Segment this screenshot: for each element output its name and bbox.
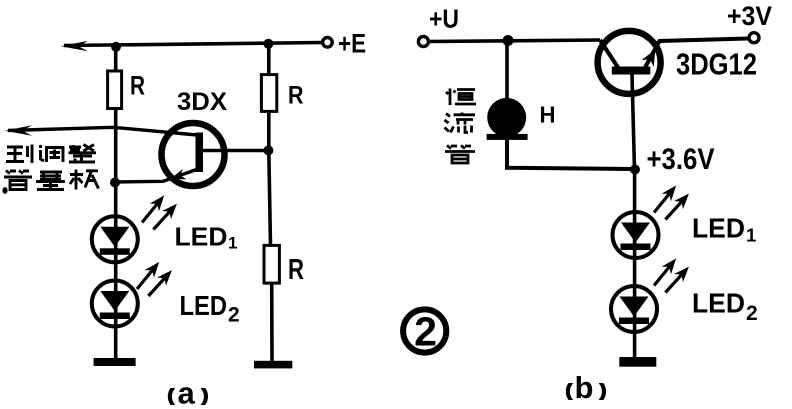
svg-text:1: 1 (228, 234, 237, 253)
svg-text:+3.6V: +3.6V (647, 143, 715, 176)
emitter arrowhead Q1 (169, 169, 187, 184)
svg-text:R: R (288, 254, 304, 286)
ground (divider a) (254, 361, 292, 369)
arrowhead left (rail to external) (61, 41, 88, 51)
wire +E rail (64, 43, 322, 46)
Q1 base bar (196, 133, 204, 173)
svg-text:LED: LED (175, 221, 228, 251)
light arrows D4 (649, 255, 680, 290)
D2 cathode bar (100, 313, 130, 320)
label 管基极 line 2 (4, 170, 99, 190)
wire collector to regulator base (goes left) (8, 127, 197, 135)
D3 triangle (621, 223, 650, 243)
svg-text:LED: LED (692, 287, 745, 318)
D4 triangle (620, 297, 649, 317)
LED D3 circle (613, 212, 659, 258)
wire +U rail (429, 40, 600, 42)
svg-text:(: ( (566, 383, 572, 400)
wire Q1 base to divider node (203, 149, 269, 152)
label 恒流管 (vertical) (445, 89, 477, 164)
svg-text:(: ( (168, 388, 174, 405)
svg-text:LED: LED (180, 290, 228, 321)
LED D2 circle (92, 281, 138, 327)
svg-text:R: R (130, 71, 145, 101)
D3 cathode bar (621, 244, 651, 251)
svg-text:R: R (288, 82, 304, 110)
node A2 (rail / R divider a-right) (263, 39, 273, 49)
wire emitter (115, 169, 198, 182)
resistor R3 (264, 245, 279, 283)
ground (LED chain a) (94, 358, 136, 366)
wire left branch vertical (114, 47, 118, 359)
svg-text:2: 2 (746, 302, 758, 325)
resistor R1 (108, 71, 122, 109)
label 到调整 (to regulator) line 1 (6, 145, 96, 164)
terminal +E (open circle) (323, 38, 333, 48)
node E (+3.6V junction) (630, 165, 640, 175)
svg-text:+U: +U (429, 4, 459, 34)
light arrows D1 (137, 192, 168, 227)
svg-text:1: 1 (746, 224, 756, 245)
svg-text:2: 2 (414, 309, 437, 355)
node A1 (rail / R divider a-left) (111, 42, 121, 52)
svg-text:+3V: +3V (727, 1, 772, 31)
svg-text:+E: +E (338, 29, 366, 59)
svg-text:a: a (178, 376, 196, 409)
svg-text:LED: LED (692, 213, 745, 244)
D1 triangle (100, 227, 129, 247)
wire collector Q2 (600, 40, 618, 68)
current regulator H (filled circle) (487, 98, 526, 137)
terminal +3V (open circle) (749, 33, 759, 43)
terminal +U (open circle) (418, 37, 428, 47)
svg-text:3DX: 3DX (177, 88, 227, 116)
wire H bottom to node E (507, 139, 632, 169)
svg-text:2: 2 (228, 304, 240, 327)
D4 cathode bar (619, 318, 649, 325)
light arrows D2 (132, 258, 163, 293)
H bottom bar (487, 134, 528, 140)
svg-text:H: H (540, 102, 556, 128)
ground (b) (619, 357, 656, 367)
svg-text:): ) (203, 388, 208, 405)
Q2 emitter wire (645, 39, 748, 68)
Q2 base bar (612, 67, 651, 75)
arrowhead left (collector wire) (5, 125, 32, 135)
svg-text:3DG12: 3DG12 (676, 47, 757, 82)
transistor Q1 3DX circle (162, 123, 225, 186)
node B (emitter / LED chain junction) (110, 178, 120, 188)
svg-text:b: b (575, 370, 594, 405)
wire right divider vertical (a) (269, 44, 272, 361)
ink mark (scan comma) (2, 187, 7, 194)
node D (rail / H branch) (503, 35, 514, 46)
wire LED chain (b) (633, 170, 637, 358)
LED D1 circle (92, 216, 138, 262)
light arrows D3 (649, 182, 680, 217)
D1 cathode bar (100, 248, 130, 255)
resistor R2 (261, 75, 276, 112)
node C (base / divider a-right) (263, 145, 273, 155)
wire H branch top (505, 41, 509, 105)
LED D4 circle (611, 286, 657, 332)
figure number 2 (circled) (403, 309, 446, 352)
svg-text:): ) (601, 383, 606, 400)
D2 triangle (100, 291, 129, 311)
Q2 base lead (632, 75, 635, 171)
emitter arrowhead Q2 (641, 46, 661, 67)
transistor Q2 3DG12 circle (598, 31, 661, 94)
